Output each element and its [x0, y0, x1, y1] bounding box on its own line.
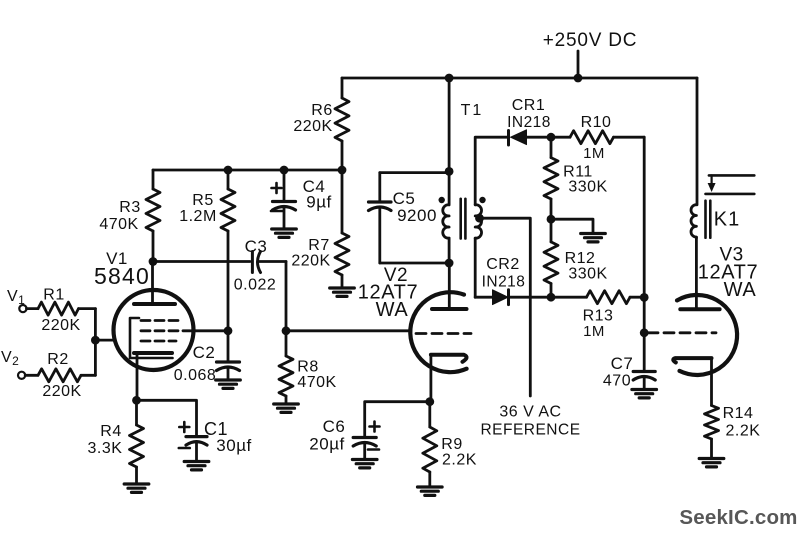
- svg-text:C2: C2: [193, 343, 216, 362]
- svg-text:2.2K: 2.2K: [726, 423, 761, 440]
- label R13 value: [583, 323, 605, 340]
- label R8: [297, 359, 318, 376]
- wire center tap ground: [551, 219, 593, 233]
- svg-text:5840: 5840: [94, 263, 150, 289]
- terminal input V2: [18, 372, 25, 379]
- wire CR2 anode: [475, 296, 492, 299]
- svg-text:R5: R5: [192, 192, 213, 209]
- svg-text:20µf: 20µf: [309, 435, 344, 454]
- relay K1 contact lower: [706, 193, 755, 196]
- svg-text:470: 470: [603, 373, 631, 390]
- resistor R14: [705, 406, 719, 459]
- polarity - C1: [179, 447, 190, 450]
- svg-text:36 V AC: 36 V AC: [499, 404, 561, 421]
- node CR1 output: [547, 133, 556, 142]
- label CR2: [486, 256, 520, 273]
- label R7: [308, 237, 329, 254]
- label reference: [480, 422, 580, 439]
- resistor R7: [335, 170, 349, 288]
- ground C4: [272, 229, 297, 237]
- node CR2 output: [547, 293, 556, 302]
- svg-text:CR1: CR1: [512, 97, 546, 114]
- svg-text:C6: C6: [323, 417, 346, 436]
- label C4: [303, 177, 326, 196]
- capacitor C2: [217, 331, 240, 380]
- label R9 value: [442, 452, 477, 469]
- label R2 value: [42, 383, 81, 400]
- svg-text:220K: 220K: [291, 253, 330, 270]
- label C5 value: [397, 206, 437, 225]
- svg-text:WA: WA: [376, 299, 409, 321]
- label C1 value: [216, 436, 251, 455]
- transformer T1 secondary: [475, 205, 481, 238]
- svg-text:0.068: 0.068: [174, 367, 217, 384]
- svg-text:9µf: 9µf: [306, 193, 331, 212]
- svg-text:R14: R14: [723, 405, 754, 422]
- label C7 value: [603, 373, 631, 390]
- label CR1: [512, 97, 546, 114]
- svg-text:330K: 330K: [568, 179, 607, 196]
- ground C1: [184, 462, 209, 470]
- resistor R10: [551, 131, 644, 144]
- +250V DC supply label: [543, 30, 638, 51]
- svg-text:30µf: 30µf: [216, 436, 251, 455]
- ground R4: [124, 484, 149, 492]
- wire cathode to C6: [365, 402, 430, 438]
- tube V2 cathode: [431, 355, 467, 402]
- label T1: [461, 102, 484, 119]
- node secondary tap: [475, 214, 484, 223]
- label C5: [393, 189, 416, 208]
- tube V1 envelope: [114, 290, 194, 370]
- svg-text:1M: 1M: [583, 145, 605, 162]
- tube V1 grid bracket: [130, 318, 173, 358]
- wire C5 bottom: [380, 262, 449, 265]
- label V1: [106, 249, 128, 268]
- label R3: [119, 199, 140, 216]
- svg-text:R10: R10: [581, 114, 612, 131]
- wire grid input: [95, 339, 115, 342]
- label R6: [311, 102, 332, 119]
- diode CR2: [493, 290, 552, 305]
- capacitor C5: [369, 173, 392, 263]
- resistor R6: [335, 78, 349, 170]
- label R14 value: [726, 423, 761, 440]
- label R9: [441, 436, 462, 453]
- label C6: [323, 417, 346, 436]
- resistor R9: [423, 402, 437, 487]
- wire C5 top: [380, 171, 449, 174]
- capacitor C3: [252, 252, 286, 273]
- node T1 primary bottom: [445, 259, 454, 268]
- resistor R2: [25, 369, 95, 382]
- node input junction: [91, 336, 100, 345]
- label V2: [384, 265, 408, 286]
- label R11: [563, 164, 593, 181]
- polarity - C4: [271, 210, 282, 213]
- resistor R11: [544, 137, 558, 219]
- label R12: [565, 250, 596, 267]
- svg-text:220K: 220K: [41, 317, 80, 334]
- node V1 plate junction: [149, 257, 158, 266]
- label C2: [193, 343, 216, 362]
- label R14: [723, 405, 754, 422]
- relay K1 contact upper: [709, 174, 754, 177]
- node R6 bottom: [338, 166, 347, 175]
- node supply tap: [574, 74, 583, 83]
- wire discriminator output: [643, 137, 646, 371]
- svg-text:IN218: IN218: [482, 274, 526, 291]
- capacitor C1: [186, 437, 207, 462]
- svg-text:R13: R13: [583, 308, 614, 325]
- wire V2 grid: [286, 329, 410, 333]
- tube V2 plate: [432, 263, 467, 309]
- wire R2 to grid node: [94, 340, 97, 375]
- svg-text:C3: C3: [245, 237, 268, 256]
- node output-R13: [640, 293, 649, 302]
- tube V2 grid dashes: [416, 332, 471, 335]
- node V1 cathode junction: [132, 396, 141, 405]
- polarity + C1: [179, 422, 189, 432]
- ground C2: [216, 380, 241, 388]
- relay K1 coil: [691, 205, 696, 238]
- capacitor C4: [273, 170, 296, 229]
- tube V1 grid dashes row2: [141, 329, 190, 332]
- node wire170-R5: [224, 166, 233, 175]
- tube V1 grid dashes row1: [141, 319, 179, 322]
- tube V1 grid dashes row3: [141, 340, 176, 343]
- label R4 value: [88, 440, 123, 457]
- watermark SeekIC.com: [679, 506, 797, 529]
- label R7 value: [291, 253, 330, 270]
- label C4 value: [306, 193, 331, 212]
- polarity + C4: [272, 183, 282, 193]
- node output-grid: [640, 328, 649, 337]
- node V2 grid junction: [282, 326, 291, 335]
- svg-text:C7: C7: [611, 354, 634, 373]
- tube V3 cathode: [673, 358, 711, 405]
- svg-text:470K: 470K: [297, 374, 336, 391]
- capacitor C7: [633, 372, 655, 390]
- label R5 value: [179, 208, 217, 225]
- label V2 type: [358, 282, 418, 304]
- svg-text:3.3K: 3.3K: [88, 440, 123, 457]
- label R2: [47, 351, 68, 368]
- ground R7: [330, 288, 355, 296]
- polarity dot T1 secondary: [479, 197, 485, 203]
- svg-text:330K: 330K: [568, 266, 607, 283]
- label C2 value: [174, 367, 217, 384]
- label R1 value: [41, 317, 80, 334]
- label 36VAC: [499, 404, 561, 421]
- svg-text:T1: T1: [461, 102, 484, 119]
- label R5: [192, 192, 213, 209]
- wire B+ to T1: [448, 78, 451, 173]
- label K1: [714, 209, 740, 231]
- svg-text:R4: R4: [100, 423, 121, 440]
- svg-text:CR2: CR2: [486, 256, 520, 273]
- wire rail to K1: [696, 78, 699, 205]
- label R6 value: [293, 118, 332, 135]
- node divider center: [547, 215, 556, 224]
- tube V1 cathode: [134, 353, 172, 400]
- svg-text:220K: 220K: [42, 383, 81, 400]
- wire screen grid: [191, 329, 228, 332]
- label CR2 type: [482, 274, 526, 291]
- wire T1 secondary top: [475, 137, 508, 205]
- tube V3 envelope: [677, 295, 737, 375]
- capacitor C6: [353, 438, 376, 460]
- label R10 value: [583, 145, 605, 162]
- svg-text:0.022: 0.022: [234, 277, 277, 294]
- polarity + C6: [370, 422, 380, 432]
- tube V2 envelope: [410, 292, 466, 372]
- ground R8: [274, 404, 299, 412]
- resistor R4: [130, 400, 144, 484]
- wire R1 to grid node: [94, 309, 97, 341]
- label C3: [245, 237, 268, 256]
- label C1: [204, 419, 228, 439]
- label V1 type: [94, 263, 150, 289]
- label R1: [43, 287, 64, 304]
- svg-text:IN218: IN218: [507, 114, 551, 131]
- label C7: [611, 354, 634, 373]
- node T1 primary top: [445, 167, 454, 176]
- node wire170-C4: [280, 166, 289, 175]
- ground divider: [581, 234, 606, 242]
- wire C3 to grid node: [285, 262, 288, 331]
- tube V1 plate: [134, 262, 175, 305]
- relay K1 actuator arrow: [708, 175, 716, 192]
- label input V2: [1, 349, 19, 368]
- resistor R3: [146, 170, 160, 262]
- node rail-T1: [445, 74, 454, 83]
- diode CR1: [509, 130, 552, 145]
- resistor R12: [544, 219, 558, 297]
- svg-text:470K: 470K: [99, 216, 138, 233]
- label R10: [581, 114, 612, 131]
- label C3 value: [234, 277, 277, 294]
- label V3 type: [698, 262, 758, 284]
- svg-text:K1: K1: [714, 209, 740, 231]
- tube V3 plate: [680, 238, 719, 309]
- wire T1 secondary bottom: [474, 238, 477, 297]
- svg-text:+250V DC: +250V DC: [543, 30, 638, 51]
- wire 36VAC reference: [480, 218, 531, 396]
- svg-text:R12: R12: [565, 250, 596, 267]
- node screen grid junction: [224, 326, 233, 335]
- node V2 cathode junction: [425, 397, 434, 406]
- svg-text:R8: R8: [297, 359, 318, 376]
- transformer T1 primary: [443, 173, 449, 263]
- label V2 type2: [376, 299, 409, 321]
- svg-text:1M: 1M: [583, 323, 605, 340]
- relay K1 core: [706, 201, 711, 238]
- resistor R8: [279, 331, 293, 404]
- svg-text:9200: 9200: [397, 206, 437, 225]
- ground C7: [632, 390, 657, 398]
- label R8 value: [297, 374, 336, 391]
- label R12 value: [568, 266, 607, 283]
- terminal input V1: [19, 305, 26, 312]
- ground R14: [699, 459, 724, 467]
- resistor R5: [221, 170, 235, 331]
- svg-text:REFERENCE: REFERENCE: [480, 422, 580, 439]
- ground R9: [418, 487, 443, 495]
- polarity - C6: [368, 448, 379, 451]
- svg-text:WA: WA: [724, 279, 757, 301]
- svg-text:R2: R2: [47, 351, 68, 368]
- label R4: [100, 423, 121, 440]
- label CR1 type: [507, 114, 551, 131]
- label R13: [583, 308, 614, 325]
- svg-text:SeekIC.com: SeekIC.com: [679, 506, 797, 529]
- tube V3 grid dashes: [648, 331, 716, 334]
- wire B+ distribution: [153, 169, 342, 172]
- svg-text:1.2M: 1.2M: [179, 208, 217, 225]
- resistor R1: [27, 302, 96, 315]
- wire cathode to C1: [137, 400, 197, 436]
- label R3 value: [99, 216, 138, 233]
- svg-text:R3: R3: [119, 199, 140, 216]
- wire V1 plate row: [153, 260, 250, 263]
- wire +250V rail: [342, 77, 697, 80]
- svg-text:R7: R7: [308, 237, 329, 254]
- label V3: [719, 245, 743, 266]
- svg-text:2.2K: 2.2K: [442, 452, 477, 469]
- svg-text:R6: R6: [311, 102, 332, 119]
- label C6 value: [309, 435, 344, 454]
- node wire170-R3: [151, 168, 154, 171]
- resistor R13: [551, 291, 644, 304]
- label input V1: [7, 288, 25, 307]
- wire supply stub: [577, 51, 580, 78]
- ground C6: [352, 460, 377, 468]
- polarity dot T1 primary: [439, 197, 445, 203]
- svg-text:R1: R1: [43, 287, 64, 304]
- svg-text:220K: 220K: [293, 118, 332, 135]
- label R11 value: [568, 179, 607, 196]
- transformer T1 core: [461, 199, 466, 239]
- label V3 type2: [724, 279, 757, 301]
- svg-text:R9: R9: [441, 436, 462, 453]
